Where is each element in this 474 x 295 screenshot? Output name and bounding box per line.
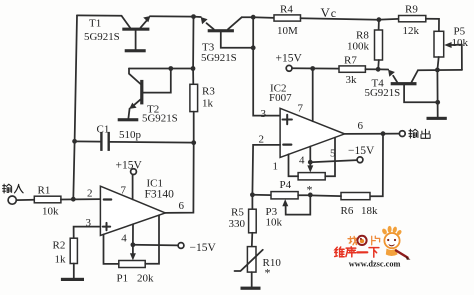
wire node B down to IC2 pin3 [253,17,280,115]
svg-text:10M: 10M [277,25,298,37]
wire T1 emitter to node A [150,15,194,17]
potentiometer P4 body [252,192,310,199]
svg-text:−15V: −15V [190,242,217,254]
svg-text:510p: 510p [119,129,142,141]
ground T2 emitter [118,118,139,121]
resistor R7 [339,55,365,87]
transistor T4 [365,70,438,103]
node C junction dot (T2 collector node) [191,66,196,71]
svg-text:5G921S: 5G921S [84,31,120,43]
svg-text:R9: R9 [405,3,418,15]
terminal +15V IC1 [131,169,137,175]
resistor R8 [347,20,383,70]
ground T1 base [125,49,146,52]
wire IC2 output [345,133,400,135]
wire IC2 pin2 column [252,145,280,195]
terminal +15V IC2 [286,65,292,71]
resistor R2 [53,227,101,278]
resistor R4 [253,3,300,37]
svg-text:330: 330 [229,218,246,230]
wire P5 bottom [437,57,438,70]
wire R7 to T4 [365,68,388,70]
svg-text:4: 4 [299,154,305,166]
svg-text:3: 3 [261,108,267,120]
svg-text:10k: 10k [452,37,469,49]
watermark dzsc logo [335,226,411,268]
wire pin4 to -15V terminal [133,244,178,247]
potentiometer P1 [117,261,155,285]
resistor R5 [229,195,257,247]
mascot crown [381,226,402,236]
ground T4 [427,117,447,120]
wire IC1 output feedback column [165,143,193,213]
wire +15V to R7 [292,67,339,69]
svg-text:R3: R3 [202,86,215,98]
op-amp IC2 triangle [259,83,364,173]
op-amp IC1 triangle [86,177,185,244]
node output junction dot [381,131,386,136]
resistor R3 [190,69,215,143]
node T3 base tie junction dot [251,45,256,50]
svg-text:1k: 1k [55,253,67,265]
node P5 bottom junction dot [435,68,440,73]
node Vc junction dot [377,17,382,22]
svg-text:R7: R7 [344,55,357,67]
feedback wire R6 right [370,134,383,197]
capacitor C1 [75,124,194,151]
svg-text:4: 4 [121,233,127,245]
wire P1 right to IC1 pin5 [145,215,159,263]
wire left feedback rail [73,15,77,199]
char pian [372,236,380,245]
svg-text:T1: T1 [89,17,101,29]
resistor R6 [341,193,379,218]
transistor T2 [128,69,177,125]
wire R1 to IC1 pin2 [61,198,101,200]
potentiometer P5 [434,26,469,57]
ground R2 [61,278,84,281]
svg-text:100k: 100k [347,41,370,53]
svg-text:+15V: +15V [276,52,303,64]
label output (Chinese) [409,129,430,138]
svg-text:6: 6 [179,200,185,212]
svg-text:−15V: −15V [348,145,375,157]
svg-text:*: * [265,265,271,279]
svg-text:F3140: F3140 [145,189,175,201]
wire IC2 pin7 [312,69,314,122]
wire P1 left to IC1 pin1 [104,234,119,264]
wire IC1 pin7 [132,175,134,200]
svg-text:10k: 10k [42,205,59,217]
resistor R9 [379,3,426,37]
svg-text:3k: 3k [346,74,358,86]
wire pin4 to -15V terminal IC2 [310,160,357,162]
node C1 left junction dot [72,139,77,144]
wire IC1 pin4 [132,224,134,245]
svg-text:7: 7 [298,103,304,115]
svg-text:R5: R5 [231,206,244,218]
svg-text:20k: 20k [137,273,154,285]
svg-text:P1: P1 [117,273,129,285]
transistor T3 [194,17,254,64]
node P4 left junction dot [250,192,255,197]
node T2 base junction dot [168,66,173,71]
mascot brush [396,251,408,258]
node pin7 junction dot [310,66,315,71]
wire pot to IC2 pin1 [289,154,299,176]
emblem circle [356,235,367,246]
wire pot to IC2 pin5 [325,138,335,177]
node R8 bottom junction dot [376,67,381,72]
wire R9 to P5 top [426,19,439,32]
svg-text:6: 6 [358,120,364,132]
wire T4 ground column [436,70,438,117]
svg-text:5G921S: 5G921S [142,113,178,125]
svg-text:2: 2 [259,133,265,145]
node pin2 junction dot [71,197,76,202]
terminal -15V IC1 [178,243,184,249]
svg-text:5G921S: 5G921S [201,52,237,64]
mascot head [384,233,399,248]
svg-text:1k: 1k [202,97,214,109]
svg-text:R4: R4 [280,3,293,15]
wire IC2 pin4 [309,147,311,163]
terminal input [8,196,16,204]
svg-text:Vc: Vc [321,5,337,20]
wire top rail left segment [77,14,122,16]
svg-text:C1: C1 [97,124,110,136]
svg-text:www.dzsc.com: www.dzsc.com [349,259,401,268]
svg-text:18k: 18k [361,205,378,217]
svg-text:IC1: IC1 [147,177,164,189]
wire R4 to node Vc [301,18,379,20]
node IC2 pin4 junction dot [308,160,313,165]
wiper P5 arrow [451,45,462,70]
wire T2 base tie [143,69,171,93]
svg-text:R2: R2 [53,239,66,251]
terminal -15V IC2 [357,157,363,163]
wire R6 to P4 node [310,194,341,197]
node A junction dot [191,14,196,19]
node D junction dot (C1/R3/out) [191,140,196,145]
svg-text:+15V: +15V [116,159,143,171]
svg-text:2: 2 [87,187,93,199]
potentiometer P1 wiper arrow [132,245,134,254]
resistor R1 [16,185,61,218]
svg-text:P5: P5 [454,26,466,38]
node pin4 junction dot [131,242,136,247]
potentiometer P4 offset wiper arrow [309,162,311,166]
char wo [348,236,357,244]
node T4 base junction dot [435,100,440,105]
node P4 right junction dot [308,193,313,198]
transistor T1 [84,16,150,50]
wire T4 collector rail [418,69,462,71]
node B junction dot [251,15,256,20]
svg-text:P4: P4 [280,179,292,191]
mascot face [387,239,396,246]
ground R10 [241,287,261,290]
wire T3 collector to node B [242,16,253,18]
terminal output [399,131,405,137]
svg-text:5G921S: 5G921S [365,87,401,99]
wiper P3 arrow up [286,195,311,215]
mascot body [386,249,398,257]
svg-text:R1: R1 [38,185,51,197]
svg-text:10k: 10k [266,217,283,229]
thermistor R10 [235,247,282,287]
svg-text:R6: R6 [341,205,354,217]
red text wei ku yi xia [335,247,379,257]
label input (Chinese) [3,184,24,193]
wire node A down to T2 node [192,17,194,69]
svg-text:F007: F007 [269,92,292,104]
svg-text:7: 7 [121,184,127,196]
svg-text:1: 1 [273,160,279,172]
wire T2 collector node horizontal [129,68,193,70]
potentiometer P4 offset body [280,173,326,197]
svg-text:12k: 12k [403,25,420,37]
